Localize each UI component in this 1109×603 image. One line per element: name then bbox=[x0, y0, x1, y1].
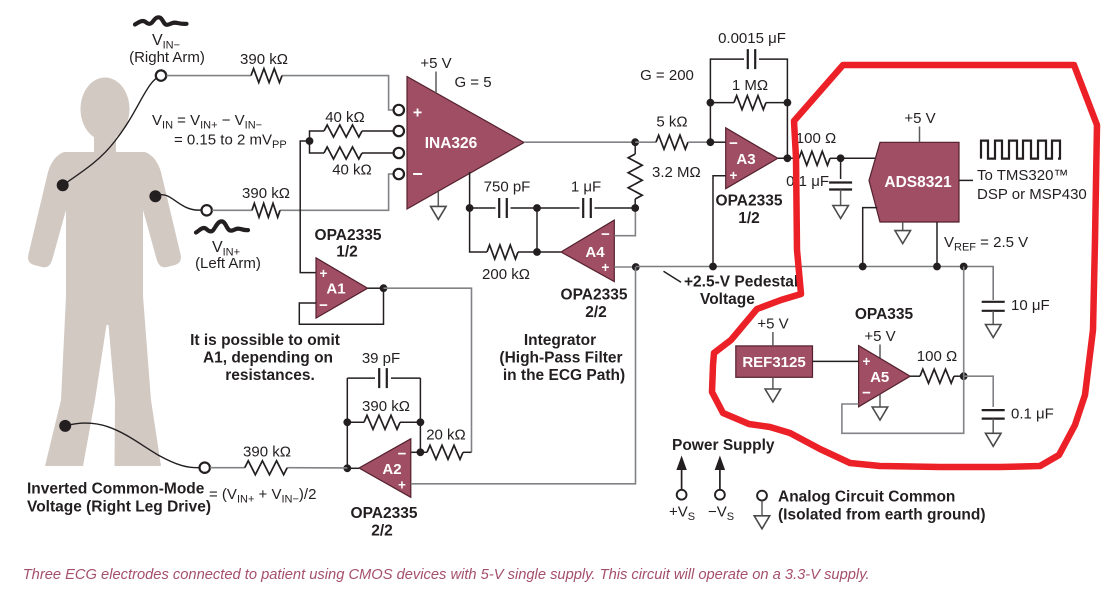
svg-text:(High-Pass Filter: (High-Pass Filter bbox=[499, 350, 622, 367]
svg-text:−: − bbox=[398, 446, 407, 463]
pin terminal INA - input bbox=[394, 169, 404, 179]
svg-text:390 kΩ: 390 kΩ bbox=[362, 398, 410, 415]
svg-text:10 μF: 10 μF bbox=[1011, 297, 1050, 314]
svg-text:3.2 MΩ: 3.2 MΩ bbox=[652, 164, 701, 181]
wire A3 + input down to pedestal bbox=[713, 176, 726, 267]
wire +5V stem A5 bbox=[879, 345, 881, 359]
power symbol -VS bbox=[719, 469, 721, 490]
svg-text:Three ECG electrodes connected: Three ECG electrodes connected to patien… bbox=[23, 567, 870, 583]
svg-text:Inverted Common-Mode: Inverted Common-Mode bbox=[27, 481, 205, 498]
svg-text:5 kΩ: 5 kΩ bbox=[656, 114, 687, 131]
op-amp INA326 U1 bbox=[407, 77, 524, 210]
wire A2 output to apex bbox=[347, 467, 359, 469]
ground A5 bbox=[879, 395, 881, 408]
electrode RL (leg) bbox=[59, 420, 71, 432]
wire 200k junction to A4 apex bbox=[537, 251, 561, 253]
capacitor 0.0015 uF loop bbox=[710, 59, 744, 103]
node 390k right bbox=[417, 418, 425, 426]
svg-text:+5 V: +5 V bbox=[420, 55, 451, 72]
resistor 390k (VIN+) bbox=[252, 203, 280, 217]
svg-text:40 kΩ: 40 kΩ bbox=[325, 109, 365, 126]
svg-text:+5 V: +5 V bbox=[757, 316, 788, 333]
svg-text:Integrator: Integrator bbox=[524, 332, 596, 349]
svg-text:390 kΩ: 390 kΩ bbox=[242, 185, 290, 202]
node 20k left bbox=[417, 448, 425, 456]
svg-text:= (VIN+ + VIN−)/2: = (VIN+ + VIN−)/2 bbox=[209, 486, 316, 506]
svg-text:A4: A4 bbox=[585, 244, 605, 261]
svg-text:0.1 μF: 0.1 μF bbox=[1011, 406, 1054, 423]
svg-text:−: − bbox=[862, 385, 871, 402]
wire 1M loop vertical left bbox=[709, 103, 711, 143]
svg-text:G = 200: G = 200 bbox=[640, 67, 694, 84]
node A3 - input bbox=[707, 138, 715, 146]
terminal RLD bbox=[200, 463, 210, 473]
capacitor 750 pF bbox=[498, 198, 500, 218]
resistor 20k bbox=[420, 451, 427, 453]
lead wire LA to VIN+ terminal bbox=[156, 195, 201, 210]
terminal VIN- bbox=[156, 70, 166, 80]
wire VREF rail down to node bbox=[963, 267, 965, 377]
wire 3.2M stubs bbox=[634, 142, 636, 154]
node A3 output bbox=[784, 154, 792, 162]
svg-text:−: − bbox=[412, 164, 423, 184]
svg-text:2/2: 2/2 bbox=[585, 304, 607, 321]
wire A5 feedback loop bbox=[842, 376, 964, 433]
node fb left bbox=[466, 204, 474, 212]
svg-text:+5 V: +5 V bbox=[904, 110, 935, 127]
node fb mid bbox=[533, 204, 541, 212]
svg-text:Voltage (Right Leg Drive): Voltage (Right Leg Drive) bbox=[27, 499, 211, 516]
ECG squiggle VIN- bbox=[135, 17, 187, 25]
capacitor 1 uF bbox=[582, 198, 584, 218]
wire A5 out to 100R bbox=[910, 375, 920, 377]
node gain loop junction bbox=[306, 137, 314, 145]
svg-text:1/2: 1/2 bbox=[738, 210, 760, 227]
capacitor 39 pF bbox=[378, 368, 380, 388]
node ADS in2 tap bbox=[859, 263, 867, 271]
wire A4 - input bbox=[614, 208, 635, 236]
capacitor 0.1 uF (VREF) bbox=[982, 409, 1005, 411]
svg-text:390 kΩ: 390 kΩ bbox=[243, 444, 291, 461]
svg-text:100 Ω: 100 Ω bbox=[796, 130, 836, 147]
patient body silhouette bbox=[28, 78, 181, 467]
svg-text:1 μF: 1 μF bbox=[571, 179, 601, 196]
ADC ADS8321 U2 bbox=[869, 142, 959, 222]
resistor 390k (A2 feedback) bbox=[347, 421, 364, 423]
voltage reference REF3125 bbox=[736, 346, 813, 377]
op-amp A1 (points right) bbox=[316, 258, 368, 318]
op-amp A3 (points right) bbox=[726, 128, 778, 189]
svg-text:A1, depending on: A1, depending on bbox=[203, 350, 333, 367]
wire RLD bbox=[210, 467, 245, 469]
svg-text:= 0.15 to 2 mVPP: = 0.15 to 2 mVPP bbox=[174, 132, 287, 152]
wire ADS output bbox=[959, 179, 973, 181]
node 200k right bbox=[533, 248, 541, 256]
node A5 100R out bbox=[960, 372, 968, 380]
node A2 output bbox=[343, 464, 351, 472]
svg-text:+: + bbox=[320, 266, 328, 281]
wire VIN+ to INA- bbox=[212, 209, 252, 211]
capacitor 0.1 uF (filter) bbox=[840, 158, 842, 179]
wire pedestal VREF rail bbox=[636, 267, 993, 301]
ground 0.1uF VREF bbox=[992, 419, 994, 434]
wire REF3125 out to A5 bbox=[813, 360, 859, 362]
svg-text:resistances.: resistances. bbox=[225, 367, 315, 384]
svg-text:OPA2335: OPA2335 bbox=[351, 505, 418, 522]
terminal VIN+ bbox=[202, 205, 212, 215]
svg-text:−: − bbox=[601, 226, 610, 243]
resistor 390k (RLD) bbox=[245, 461, 287, 475]
wire node to 0.1uF bbox=[964, 376, 994, 407]
wire A1 feedback loop bbox=[299, 288, 383, 324]
resistor 40k upper bbox=[324, 125, 362, 137]
node ADS vref tap bbox=[933, 263, 941, 271]
wire A2 + input pedestal bbox=[411, 267, 636, 484]
node 1M left bbox=[707, 99, 715, 107]
wire gain resistor loop bbox=[310, 131, 325, 141]
node fb right bbox=[631, 204, 639, 212]
svg-text:1 MΩ: 1 MΩ bbox=[732, 77, 768, 94]
svg-text:+: + bbox=[398, 478, 406, 493]
op-amp A4 (points left) bbox=[561, 220, 614, 282]
svg-text:−: − bbox=[319, 297, 328, 314]
resistor 5k bbox=[635, 141, 656, 143]
svg-text:INA326: INA326 bbox=[425, 135, 478, 152]
svg-text:+: + bbox=[602, 260, 610, 275]
svg-text:+5 V: +5 V bbox=[864, 328, 895, 345]
wire A4 + input to pedestal node bbox=[614, 266, 636, 268]
electrode LA (chest) bbox=[149, 190, 161, 202]
wire A1 output bbox=[368, 287, 384, 289]
svg-text:It is possible to omit: It is possible to omit bbox=[190, 332, 340, 349]
wire ADS lower-left pin down bbox=[863, 208, 878, 267]
op-amp A5 (points right) bbox=[859, 346, 911, 407]
svg-text:100 Ω: 100 Ω bbox=[917, 348, 957, 365]
analog common symbol bbox=[757, 491, 767, 501]
pin terminal INA gain1 bbox=[394, 126, 404, 136]
svg-text:REF3125: REF3125 bbox=[742, 354, 805, 371]
svg-text:To TMS320™: To TMS320™ bbox=[977, 167, 1068, 184]
leader line pedestal bbox=[664, 271, 682, 282]
wire VIN- to INA+ bbox=[166, 75, 251, 77]
wire A2 - input bbox=[411, 451, 421, 453]
svg-text:1/2: 1/2 bbox=[336, 244, 358, 261]
node 1M right bbox=[784, 99, 792, 107]
ground REF3125 bbox=[772, 377, 774, 389]
op-amp A2 (points left) bbox=[359, 439, 411, 498]
node 390k left bbox=[343, 418, 351, 426]
lead wire RL to RLD terminal bbox=[65, 423, 200, 468]
wire fb line bbox=[470, 207, 496, 209]
clock waveform icon bbox=[981, 141, 1060, 159]
svg-text:Power Supply: Power Supply bbox=[672, 437, 775, 454]
ground 10uF bbox=[992, 311, 994, 325]
svg-text:0.1 μF: 0.1 μF bbox=[786, 173, 829, 190]
svg-text:750 pF: 750 pF bbox=[484, 179, 531, 196]
node A1 output bbox=[380, 284, 388, 292]
svg-text:+: + bbox=[413, 105, 422, 122]
node RC filter bbox=[837, 154, 845, 162]
svg-text:A1: A1 bbox=[326, 281, 345, 298]
svg-text:OPA2335: OPA2335 bbox=[315, 227, 382, 244]
node pedestal A4 bbox=[632, 263, 640, 271]
lead wire RA to VIN- terminal bbox=[63, 78, 157, 185]
red highlight loop bbox=[712, 65, 1097, 467]
resistor 200k bbox=[487, 245, 518, 259]
svg-text:(Right Arm): (Right Arm) bbox=[129, 49, 205, 66]
svg-text:40 kΩ: 40 kΩ bbox=[332, 162, 372, 179]
pin terminal INA gain2 bbox=[394, 148, 404, 158]
resistor 40k lower bbox=[324, 147, 362, 159]
wire 39pF loop verticals bbox=[346, 378, 348, 468]
svg-text:0.0015 μF: 0.0015 μF bbox=[718, 30, 786, 47]
ground ADS8321 bbox=[902, 222, 904, 231]
wire ADS VREF pin down bbox=[936, 222, 938, 267]
node pedestal A3 tap bbox=[709, 263, 717, 271]
svg-text:−: − bbox=[729, 135, 738, 152]
capacitor 10 uF bbox=[982, 301, 1005, 303]
svg-text:(Isolated from earth ground): (Isolated from earth ground) bbox=[778, 507, 986, 524]
ECG squiggle VIN+ bbox=[196, 221, 248, 232]
svg-text:(Left Arm): (Left Arm) bbox=[195, 255, 261, 272]
power symbol +VS bbox=[681, 469, 683, 490]
svg-text:390 kΩ: 390 kΩ bbox=[240, 51, 288, 68]
svg-text:20 kΩ: 20 kΩ bbox=[426, 427, 466, 444]
resistor 100R (A3 out) bbox=[799, 151, 830, 165]
node INA out bbox=[631, 138, 639, 146]
svg-text:2/2: 2/2 bbox=[371, 523, 393, 540]
resistor 390k (VIN-) bbox=[251, 69, 282, 83]
wire 200k left bbox=[470, 208, 487, 252]
wire +5V stem ADS bbox=[919, 127, 921, 143]
svg-text:DSP or MSP430: DSP or MSP430 bbox=[977, 186, 1087, 203]
wire fb mid down bbox=[536, 208, 538, 252]
svg-text:Voltage: Voltage bbox=[700, 291, 755, 308]
svg-text:OPA2335: OPA2335 bbox=[561, 287, 628, 304]
svg-text:A2: A2 bbox=[382, 461, 401, 478]
electrode RA (chest) bbox=[57, 179, 69, 191]
wire INA fb vertical bbox=[469, 172, 471, 208]
svg-text:+: + bbox=[863, 354, 871, 369]
svg-text:+: + bbox=[730, 168, 738, 183]
svg-text:200 kΩ: 200 kΩ bbox=[482, 266, 530, 283]
svg-text:A5: A5 bbox=[870, 369, 889, 386]
node A5 rail tap bbox=[960, 263, 968, 271]
wire junction down to A1 + input bbox=[300, 141, 316, 273]
svg-text:in the ECG Path): in the ECG Path) bbox=[503, 367, 625, 384]
resistor 100R (A5) bbox=[920, 369, 954, 383]
wire +5V stem REF bbox=[772, 332, 774, 346]
wire +5V stem INA bbox=[435, 72, 437, 94]
pin terminal INA + input bbox=[394, 105, 404, 115]
svg-text:OPA335: OPA335 bbox=[855, 306, 914, 323]
svg-text:A3: A3 bbox=[736, 151, 755, 168]
wire A3 out to 100R bbox=[778, 157, 799, 159]
wire 39pF loop top bbox=[347, 377, 375, 379]
ground INA326 bbox=[437, 192, 439, 207]
resistor 1M bbox=[710, 102, 734, 104]
wire node to ADS input bbox=[841, 157, 876, 159]
wire 1M right down to A3 out bbox=[786, 103, 788, 159]
svg-text:OPA2335: OPA2335 bbox=[716, 193, 783, 210]
svg-text:G = 5: G = 5 bbox=[454, 74, 491, 91]
svg-text:Analog Circuit Common: Analog Circuit Common bbox=[778, 489, 955, 506]
resistor 3.2M bbox=[628, 154, 642, 199]
ground 0.1uF filter bbox=[840, 190, 842, 206]
svg-text:+2.5-V Pedestal: +2.5-V Pedestal bbox=[684, 274, 798, 291]
svg-text:39 pF: 39 pF bbox=[362, 350, 400, 367]
svg-text:ADS8321: ADS8321 bbox=[884, 174, 952, 191]
wire INA output bbox=[524, 141, 635, 143]
